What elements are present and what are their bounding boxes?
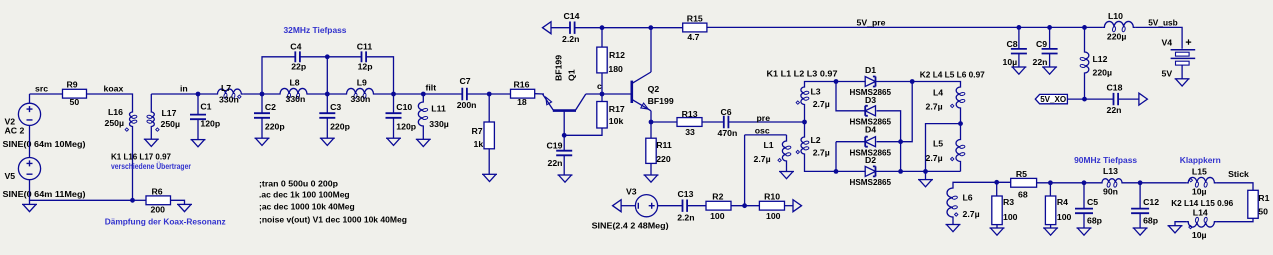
svg-text:180: 180 <box>608 64 623 74</box>
wire L12 top stub <box>1084 27 1086 50</box>
junction R7 node <box>487 92 492 97</box>
wire V4 ground lead <box>1181 65 1183 79</box>
svg-text:R17: R17 <box>609 104 625 114</box>
junction D4 right node <box>898 139 903 144</box>
wire R1 to L14 <box>1216 218 1253 221</box>
wire L4 to mid node <box>960 110 962 124</box>
diode D2 <box>850 155 892 187</box>
svg-text:R6: R6 <box>152 186 163 196</box>
voltage source V2 <box>5 103 41 135</box>
svg-text:R5: R5 <box>1016 169 1027 179</box>
junction Q2 emitter node <box>649 120 654 125</box>
junction bridge mid <box>325 54 330 59</box>
wire C3 stub <box>326 94 328 113</box>
svg-text:SINE(0 64m 10Meg): SINE(0 64m 10Meg) <box>3 139 86 149</box>
junction Q1 base node <box>562 133 567 138</box>
wire R7 ground lead <box>488 149 490 175</box>
wire bridge riser mid <box>326 57 328 94</box>
wire V3 to C13 <box>657 205 682 207</box>
wire C4 bridge riser left <box>262 57 295 94</box>
junction mixer top-left <box>834 79 839 84</box>
wire L1 ground lead <box>786 163 788 172</box>
svg-text:12p: 12p <box>358 62 373 72</box>
wire L12 bottom stub <box>1084 75 1086 99</box>
capacitor C8 <box>1003 39 1027 67</box>
ground at V4 <box>1175 79 1190 86</box>
wire R12 top lead <box>601 27 603 47</box>
ground at mixer <box>918 180 933 187</box>
svg-text:L17: L17 <box>162 108 177 118</box>
svg-text:2.7µ: 2.7µ <box>926 102 943 112</box>
svg-text:Q1: Q1 <box>567 69 577 81</box>
wire C11 bridge <box>327 56 361 58</box>
svg-text:L10: L10 <box>1108 11 1123 21</box>
net Stick <box>1228 169 1249 179</box>
svg-text:10µ: 10µ <box>1192 186 1207 196</box>
junction mixer bottom-left <box>834 169 839 174</box>
svg-text:L1: L1 <box>764 140 774 150</box>
wire pre line <box>728 121 804 123</box>
svg-text:SINE(2.4 2 48Meg): SINE(2.4 2 48Meg) <box>592 221 669 231</box>
svg-text:C5: C5 <box>1087 197 1098 207</box>
wire emitter to R11 <box>650 122 652 138</box>
ground at L17 <box>144 139 159 146</box>
svg-text:C12: C12 <box>1143 197 1159 207</box>
svg-text:100: 100 <box>710 211 725 221</box>
svg-text:R13: R13 <box>682 109 698 119</box>
svg-text:10µ: 10µ <box>1192 230 1207 240</box>
wire C1 to ground <box>197 119 199 139</box>
wire mid tap <box>926 124 961 172</box>
wire R7 lead <box>488 94 490 122</box>
svg-text:220p: 220p <box>265 122 285 132</box>
svg-text:L7: L7 <box>221 83 231 93</box>
junction mixer ground node <box>923 169 928 174</box>
svg-text:90n: 90n <box>1103 186 1118 196</box>
wire R6 to ground <box>133 199 147 201</box>
wire osc riser <box>744 135 746 206</box>
ground at V5 <box>22 204 37 211</box>
svg-text:22n: 22n <box>1033 57 1048 67</box>
capacitor C11 <box>357 41 373 71</box>
node c <box>597 81 602 91</box>
svg-text:koax: koax <box>104 83 124 93</box>
wire 5V_usb <box>1135 27 1182 48</box>
capacitor C1 <box>190 102 220 129</box>
svg-text:22n: 22n <box>548 158 563 168</box>
junction L11 node <box>421 92 426 97</box>
inductor L15 <box>1186 166 1216 196</box>
junction osc node <box>742 203 747 208</box>
svg-text:C18: C18 <box>1107 82 1123 92</box>
svg-text:200n: 200n <box>457 100 477 110</box>
resistor R13 <box>677 109 702 137</box>
junction C8 node <box>1017 25 1022 30</box>
svg-text:220µ: 220µ <box>1093 68 1113 78</box>
svg-text:330n: 330n <box>219 95 239 105</box>
ground at C12 <box>1133 228 1148 235</box>
svg-text:R9: R9 <box>67 80 78 90</box>
resistor R2 <box>706 191 731 220</box>
svg-text:V4: V4 <box>1162 37 1173 47</box>
wire D3 right lead <box>877 111 901 172</box>
wire C5 stub <box>1083 183 1085 209</box>
junction C12 node <box>1138 180 1143 185</box>
wire src to R9 <box>30 93 63 95</box>
svg-text:68: 68 <box>1018 189 1028 199</box>
svg-text:10µ: 10µ <box>1003 57 1018 67</box>
wire R2 to osc node <box>731 205 759 207</box>
svg-text:R10: R10 <box>764 191 780 201</box>
svg-text:100: 100 <box>766 211 781 221</box>
svg-text:220p: 220p <box>330 122 350 132</box>
svg-text:D1: D1 <box>865 65 876 75</box>
wire C3 ground lead <box>326 118 328 138</box>
directive noise <box>259 214 407 224</box>
svg-text:2.7µ: 2.7µ <box>813 99 830 109</box>
svg-text:;ac dec 1000 10k 40Meg: ;ac dec 1000 10k 40Meg <box>259 202 355 212</box>
inductor L14 <box>1186 208 1216 241</box>
diode D4 <box>850 125 892 158</box>
junction L12 node <box>1082 25 1087 30</box>
wire L17 top to in rail <box>150 94 152 110</box>
svg-text:C6: C6 <box>721 107 732 117</box>
ground at L6 <box>946 225 961 232</box>
svg-text:pre: pre <box>757 113 771 123</box>
svg-text:C11: C11 <box>357 41 373 51</box>
value label V2 SINE <box>3 139 86 149</box>
ground at R3 <box>990 228 1005 235</box>
resistor R5 <box>1011 169 1037 199</box>
transistor Q1 BF199 <box>543 55 586 136</box>
svg-text:C2: C2 <box>265 102 276 112</box>
node koax <box>104 83 124 93</box>
wire C2 stub <box>261 94 263 113</box>
svg-text:220µ: 220µ <box>1107 31 1127 41</box>
svg-text:330µ: 330µ <box>429 119 449 129</box>
ground at C19 <box>558 175 573 182</box>
junction koax-bottom rail <box>130 198 135 203</box>
ground at R7 <box>482 174 497 181</box>
inductor L7 <box>216 83 244 105</box>
svg-text:L14: L14 <box>1193 208 1208 218</box>
svg-text:BF199: BF199 <box>554 55 564 81</box>
svg-text:Q2: Q2 <box>648 84 660 94</box>
comment Klappkern <box>1180 155 1221 165</box>
svg-text:68p: 68p <box>1143 215 1158 225</box>
svg-text:K2 L14 L15 0.96: K2 L14 L15 0.96 <box>1171 198 1233 208</box>
comment 32MHz Tiefpass <box>284 25 347 35</box>
wire 5V_pre rail <box>707 26 1103 28</box>
capacitor C18 <box>1107 82 1123 115</box>
junction C10 node <box>391 92 396 97</box>
node in <box>180 83 188 93</box>
junction in node <box>196 92 201 97</box>
svg-text:L3: L3 <box>811 86 821 96</box>
ground at R11 <box>644 175 659 182</box>
wire L6 ground lead <box>952 219 954 225</box>
ground at L14 <box>1168 226 1183 233</box>
svg-text:2.7µ: 2.7µ <box>754 154 771 164</box>
svg-text:C9: C9 <box>1036 39 1047 49</box>
svg-text:250µ: 250µ <box>105 118 125 128</box>
svg-text:C13: C13 <box>678 189 694 199</box>
inductor L5 <box>926 138 966 164</box>
wire mixer left rail A <box>836 82 865 111</box>
resistor R11 <box>646 138 672 164</box>
svg-text:R1: R1 <box>1258 193 1269 203</box>
wire L9 to filt <box>376 93 463 95</box>
inductor L9 <box>345 77 376 104</box>
wire R12 bottom lead <box>601 73 603 94</box>
value label V5 SINE <box>3 189 86 199</box>
ground at L1 <box>779 172 794 179</box>
svg-text:22p: 22p <box>291 62 306 72</box>
coupling K1 L1 L2 L3 <box>767 69 838 79</box>
svg-text:2.7µ: 2.7µ <box>813 147 830 157</box>
svg-text:;tran 0 500u 0 200p: ;tran 0 500u 0 200p <box>259 179 338 189</box>
wire C10 ground lead <box>393 118 395 138</box>
wire Q2 emitter lead <box>650 111 652 122</box>
wire R10 to arrow <box>785 205 793 207</box>
wire L16 bottom to rail <box>132 129 134 201</box>
svg-text:.ac dec 1k 100 100Meg: .ac dec 1k 100 100Meg <box>259 190 350 200</box>
comment verschiedene Uebertrager <box>111 161 191 171</box>
wire L6 top <box>953 182 1011 186</box>
svg-text:;noise v(out) V1 dec 1000 10k: ;noise v(out) V1 dec 1000 10k 40Meg <box>259 214 407 224</box>
svg-text:120p: 120p <box>200 119 220 129</box>
junction D2 right node <box>898 169 903 174</box>
wire R4 ground lead <box>1050 225 1052 228</box>
junction C2 node <box>260 92 265 97</box>
wire arrow to V3 <box>621 205 636 207</box>
svg-text:2.7µ: 2.7µ <box>926 153 943 163</box>
svg-text:AC 2: AC 2 <box>5 126 25 136</box>
wire C7 to R7 node <box>467 93 511 95</box>
resistor R7 <box>472 122 495 149</box>
wire D4 row link <box>901 82 913 142</box>
ground at C8 <box>1011 67 1026 74</box>
svg-text:R11: R11 <box>656 140 672 150</box>
junction 5V_XO node <box>1082 97 1087 102</box>
wire L11 stub <box>422 94 424 100</box>
svg-text:filt: filt <box>426 82 437 92</box>
svg-text:Stick: Stick <box>1228 169 1249 179</box>
comment 90MHz Tiefpass <box>1074 155 1137 165</box>
inductor L11 <box>418 100 448 129</box>
wire V5 ground stub <box>29 200 31 204</box>
svg-text:L2: L2 <box>811 135 821 145</box>
node pre <box>757 113 771 123</box>
svg-text:V3: V3 <box>626 186 637 196</box>
wire R13 to C6 <box>702 121 724 123</box>
wire to R15 <box>651 27 683 29</box>
wire C14 to R12 node <box>575 27 651 29</box>
svg-text:C8: C8 <box>1007 39 1018 49</box>
ground at C10 <box>386 138 401 145</box>
wire Q2 base <box>602 93 632 95</box>
wire R11 ground lead <box>650 163 652 175</box>
svg-text:Dämpfung der Koax-Resonanz: Dämpfung der Koax-Resonanz <box>105 216 227 226</box>
transistor Q2 BF199 <box>632 72 674 111</box>
svg-text:Klappkern: Klappkern <box>1180 155 1221 165</box>
wire pre to L2 <box>804 122 806 135</box>
junction Q2 collector node <box>648 25 653 30</box>
inductor L8 <box>278 77 309 104</box>
svg-text:R3: R3 <box>1003 197 1014 207</box>
capacitor C3 <box>319 102 350 132</box>
wire C12 stub <box>1139 183 1141 209</box>
wire src net <box>29 94 31 104</box>
comment Daempfung <box>105 216 227 226</box>
directive ac 2 <box>259 202 355 212</box>
wire Q1 collector to c <box>586 93 602 95</box>
inductor L10 <box>1102 11 1135 41</box>
inductor L13 <box>1100 166 1124 197</box>
svg-text:in: in <box>180 83 188 93</box>
svg-text:C7: C7 <box>460 76 471 86</box>
wire arrow to C14 <box>551 27 570 29</box>
wire R3 lead <box>996 182 998 196</box>
svg-text:L5: L5 <box>933 139 943 149</box>
inductor L12 <box>1080 50 1112 78</box>
wire L15 to R1 <box>1216 183 1253 191</box>
ground at C2 <box>255 138 270 145</box>
resistor R17 <box>597 102 625 129</box>
net 5V_usb <box>1148 17 1178 27</box>
wire L3 to pre <box>804 107 806 123</box>
svg-text:50: 50 <box>1258 207 1268 217</box>
wire L14 to ground <box>1175 222 1186 226</box>
svg-text:L9: L9 <box>357 77 367 87</box>
resistor R16 <box>511 79 535 107</box>
svg-text:5V: 5V <box>1162 69 1173 79</box>
wire mixer left rail B <box>835 142 837 172</box>
svg-text:D4: D4 <box>865 125 876 135</box>
svg-text:L13: L13 <box>1103 166 1118 176</box>
wire C1 stub <box>197 94 199 115</box>
wire C9 stub <box>1049 27 1051 49</box>
svg-text:L8: L8 <box>290 77 300 87</box>
diode D3 <box>850 95 892 126</box>
svg-text:33: 33 <box>685 127 695 137</box>
wire L3 top <box>805 82 837 86</box>
wire V2 to V5 <box>29 125 31 158</box>
svg-text:L11: L11 <box>431 103 446 113</box>
coupling K1 L16 L17 <box>111 151 171 161</box>
net flag arrow V3 left <box>613 200 622 212</box>
directive ac 1 <box>259 190 350 200</box>
svg-text:BF199: BF199 <box>648 96 674 106</box>
svg-text:120p: 120p <box>396 122 416 132</box>
directive tran <box>259 179 338 189</box>
wire L2 bottom <box>805 156 837 171</box>
svg-text:470n: 470n <box>718 128 738 138</box>
wire D1 row to L4 <box>912 82 960 86</box>
svg-text:90MHz Tiefpass: 90MHz Tiefpass <box>1074 155 1137 165</box>
wire R4 lead <box>1049 183 1051 196</box>
svg-text:SINE(0 64m 11Meg): SINE(0 64m 11Meg) <box>3 189 86 199</box>
capacitor C14 <box>562 11 580 44</box>
svg-text:330n: 330n <box>351 94 371 104</box>
junction node c <box>600 92 605 97</box>
wire C4 to C11 riser <box>300 56 327 58</box>
svg-text:250µ: 250µ <box>161 119 181 129</box>
wire mixer ground stub <box>925 171 927 179</box>
ground at L11 <box>416 139 431 146</box>
svg-text:18: 18 <box>517 97 527 107</box>
capacitor C5 <box>1075 197 1102 225</box>
svg-text:C1: C1 <box>200 102 211 112</box>
svg-text:C3: C3 <box>330 102 341 112</box>
coupling K2 L4 L5 L6 <box>920 70 985 80</box>
wire D4 to D3 rail <box>877 141 901 143</box>
resistor R10 <box>759 191 784 220</box>
inductor L4 <box>926 85 966 112</box>
junction D1 right node <box>910 79 915 84</box>
svg-text:5V_pre: 5V_pre <box>857 17 886 27</box>
svg-text:1k: 1k <box>474 139 484 149</box>
net flag arrow C14 <box>543 22 552 34</box>
svg-text:K2 L4 L5 L6 0.97: K2 L4 L5 L6 0.97 <box>920 70 985 80</box>
wire V5 to ground rail <box>30 179 133 200</box>
wire Q2 emitter to R13 <box>651 121 677 123</box>
capacitor C7 <box>457 76 477 110</box>
wire R16 to Q1 emitter <box>535 93 544 95</box>
junction R3 node <box>994 180 999 185</box>
inductor L6 <box>947 186 980 219</box>
resistor R4 <box>1045 196 1071 225</box>
ground at C3 <box>320 138 335 145</box>
wire L11 ground lead <box>422 128 424 139</box>
svg-text:K1 L1 L2 L3 0.97: K1 L1 L2 L3 0.97 <box>767 69 838 79</box>
svg-text:22n: 22n <box>1107 105 1122 115</box>
wire L7 to C2 node <box>243 93 278 95</box>
svg-text:verschiedene Übertrager: verschiedene Übertrager <box>111 161 191 171</box>
svg-text:200: 200 <box>151 204 166 214</box>
capacitor C2 <box>254 102 285 132</box>
wire C18 to arrow <box>1118 98 1139 100</box>
junction R12 top node <box>600 25 605 30</box>
net 5V_pre <box>857 17 886 27</box>
svg-text:R15: R15 <box>687 14 703 24</box>
net flag arrow C18 right <box>1139 93 1148 105</box>
inductor L17 <box>147 108 180 131</box>
svg-text:C14: C14 <box>564 11 580 21</box>
wire C5 ground lead <box>1083 213 1085 228</box>
capacitor C12 <box>1131 197 1159 225</box>
inductor L2 <box>796 135 830 157</box>
capacitor C13 <box>677 189 694 222</box>
voltage source V3 <box>626 186 658 216</box>
wire C19 ground lead <box>563 155 565 175</box>
svg-text:osc: osc <box>755 126 770 136</box>
wire C10 stub <box>393 94 395 113</box>
wire mid to L5 <box>960 124 962 138</box>
svg-text:HSMS2865: HSMS2865 <box>850 177 892 187</box>
resistor R3 <box>992 196 1018 225</box>
junction C9 node <box>1047 25 1052 30</box>
svg-text:C4: C4 <box>290 41 301 51</box>
inductor L16 <box>105 107 138 131</box>
svg-text:4.7: 4.7 <box>687 32 699 42</box>
svg-text:50: 50 <box>70 97 80 107</box>
battery V4 <box>1162 37 1196 78</box>
svg-text:K1 L16 L17 0.97: K1 L16 L17 0.97 <box>111 151 171 161</box>
diode D1 <box>850 65 892 97</box>
wire R17 top lead <box>601 94 603 102</box>
wire rail R5 to C12 <box>1037 182 1100 184</box>
